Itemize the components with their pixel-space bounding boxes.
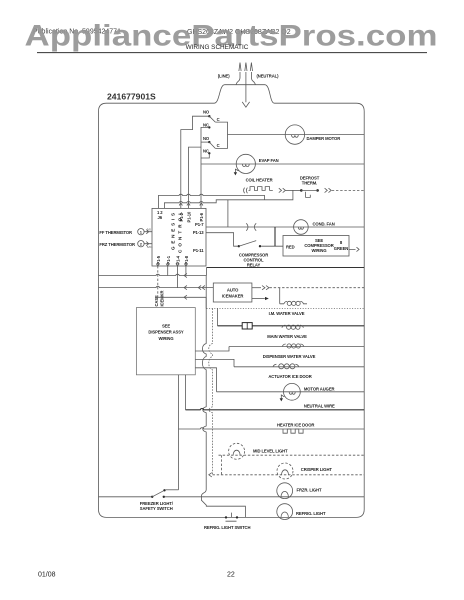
svg-text:ACTUATOR ICE DOOR: ACTUATOR ICE DOOR — [268, 374, 311, 379]
bus line 1 from left border — [99, 274, 207, 275]
svg-text:22: 22 — [227, 572, 235, 579]
thermistor 2 symbol — [138, 241, 144, 247]
neutral wire — [186, 409, 365, 410]
relay arm — [239, 241, 256, 247]
refrig switch plunger — [226, 513, 237, 522]
evap fan motor M2 — [236, 154, 255, 173]
motor auger ground — [281, 395, 284, 398]
svg-text:P1-2: P1-2 — [179, 212, 184, 221]
freezer switch arm — [152, 491, 163, 497]
svg-text:DISPENSER WATER VALVE: DISPENSER WATER VALVE — [263, 354, 316, 359]
svg-text:P1-13: P1-13 — [193, 230, 204, 235]
main water valve line — [218, 325, 365, 327]
svg-text:SAFETY SWITCH: SAFETY SWITCH — [140, 506, 173, 511]
wire: mid rail link to control P1-10 — [189, 147, 202, 208]
dotted bus below icemaker — [207, 307, 365, 309]
wire: switch A NO to left rail down to control P1-2 — [181, 116, 208, 208]
main water valve feed drop — [217, 308, 219, 325]
im water valve coil — [280, 288, 284, 304]
defrost thermostat — [300, 189, 303, 192]
thermistor 1 symbol — [138, 229, 144, 235]
svg-text:MOTOR AUGER: MOTOR AUGER — [304, 387, 335, 392]
motor auger line — [217, 391, 365, 393]
continuation chevron on bus 2 — [184, 286, 187, 290]
bus line 2 from left border to icemaker — [99, 286, 214, 287]
inline connector component on main valve line — [242, 322, 252, 329]
vertical rail V2 to crisper light — [209, 308, 213, 474]
svg-text:RED: RED — [286, 244, 295, 249]
outer cabinet border with cord hump — [99, 85, 365, 518]
svg-text:NO: NO — [203, 136, 210, 141]
switch B arm — [209, 142, 215, 148]
wire: switch B NC jog to mid rail — [201, 155, 209, 159]
svg-text:P1-5: P1-5 — [156, 255, 161, 264]
compressor control relay contacts — [238, 245, 240, 247]
neutral wire feed — [185, 375, 187, 410]
wire: switch B NO to mid rail — [201, 141, 208, 143]
dispenser water valve coil — [282, 344, 304, 348]
svg-text:DISPENSER ASSY: DISPENSER ASSY — [148, 330, 184, 335]
dispenser valve jog from dispenser box — [195, 347, 229, 352]
dispenser water valve line — [229, 346, 364, 348]
svg-text:FRZ THERMISTOR: FRZ THERMISTOR — [99, 242, 135, 247]
actuator ice door line — [234, 366, 364, 368]
svg-text:P1-7: P1-7 — [195, 222, 204, 227]
svg-text:NC: NC — [203, 149, 209, 154]
refrig light switch — [225, 516, 227, 518]
heater ice door element — [283, 429, 303, 433]
damper switch A: labels NO C NC — [203, 110, 220, 129]
svg-text:01/08: 01/08 — [38, 572, 56, 579]
control pin stubs to buses — [168, 266, 186, 288]
svg-text:J6: J6 — [158, 215, 163, 220]
svg-text:WIRING: WIRING — [312, 248, 327, 253]
svg-text:241677901S: 241677901S — [107, 92, 156, 102]
svg-text:P1-8: P1-8 — [184, 255, 189, 264]
coil heater element — [249, 187, 273, 191]
svg-text:NC: NC — [203, 123, 209, 128]
motor auger M4 — [284, 383, 301, 400]
svg-text:C: C — [217, 117, 220, 122]
icemaker output dashed to border — [252, 287, 261, 289]
svg-text:GENESIS: GENESIS — [171, 213, 176, 250]
svg-text:2: 2 — [140, 241, 143, 246]
wire to defrost thermostat — [286, 189, 301, 191]
svg-text:P1-1: P1-1 — [166, 255, 171, 264]
freezer light line — [99, 496, 365, 498]
see dispenser assy wiring box — [136, 308, 195, 375]
svg-text:SEE: SEE — [162, 323, 170, 328]
connector chevrons at control box top pins — [179, 203, 203, 206]
svg-text:NO: NO — [203, 110, 210, 115]
8 green stub connector — [349, 247, 359, 251]
freezer light safety switch — [151, 496, 153, 498]
header underline — [37, 52, 427, 54]
connector chevrons at icemaker input — [198, 286, 205, 290]
crisper light dashed line with chevron — [209, 473, 212, 477]
svg-text:P1-6: P1-6 — [199, 212, 204, 221]
svg-text:COIL HEATER: COIL HEATER — [246, 178, 273, 183]
svg-text:NEUTRAL WIRE: NEUTRAL WIRE — [304, 403, 335, 408]
vertical tie heater return to cond fan wire — [227, 200, 229, 227]
power cord prong ground (center) — [245, 72, 247, 102]
see compressor wiring box — [283, 236, 349, 257]
svg-text:P1-11: P1-11 — [193, 248, 204, 253]
svg-text:ICEMAKER: ICEMAKER — [222, 294, 244, 299]
svg-text:5/01: 5/01 — [147, 245, 153, 249]
svg-text:THERM.: THERM. — [302, 180, 317, 185]
wire: switch A C junction to vertical rail — [215, 122, 227, 148]
svg-text:CRISPER LIGHT: CRISPER LIGHT — [301, 467, 333, 472]
svg-text:COND. FAN: COND. FAN — [313, 221, 335, 226]
pin chevrons at control box bottom — [156, 263, 187, 266]
wire: relay to compressor box — [261, 245, 283, 247]
dashed tie between light lines — [221, 455, 223, 475]
svg-text:MAIN WATER VALVE: MAIN WATER VALVE — [267, 334, 307, 339]
connector chevrons defrost right — [325, 188, 332, 192]
heater ice door line — [179, 428, 365, 429]
svg-text:REFRIG. LIGHT: REFRIG. LIGHT — [296, 511, 326, 516]
svg-text:P1-10: P1-10 — [186, 211, 191, 222]
continuation chevron on bus 1 — [184, 273, 187, 277]
main water valve coil — [282, 325, 304, 329]
wire: damper motor feed from rail — [228, 134, 365, 136]
switch A arm — [209, 116, 215, 122]
wire: J6 pin2 bus to heater return — [164, 190, 293, 208]
case icemkr dashed drop — [157, 266, 159, 297]
inline connector pair on cond fan wire — [246, 223, 256, 230]
damper switch B: labels NO C NC — [203, 136, 220, 155]
P1-11 bus to right border — [207, 267, 365, 269]
svg-text:5/0: 5/0 — [147, 228, 152, 232]
svg-text:HEATER ICE DOOR: HEATER ICE DOOR — [277, 423, 314, 428]
wire: P1-7 to cond fan — [206, 226, 364, 228]
wire: freezer switch upper contact to rail — [166, 489, 179, 491]
power cord prong LINE — [236, 72, 240, 85]
wire: J6 pin1 bus to heater — [158, 194, 264, 208]
svg-text:WIRING: WIRING — [159, 336, 174, 341]
connector chevrons heater right — [279, 188, 286, 192]
svg-text:(NEUTRAL): (NEUTRAL) — [257, 74, 280, 79]
vertical rail V1 from bus down to light loop — [201, 276, 245, 518]
icemaker output arrow — [252, 298, 265, 300]
ground arrow into cabinet — [242, 102, 249, 107]
dashed wire defrost to right border — [332, 189, 364, 191]
wire: evap fan feed — [201, 163, 364, 165]
genesis control board U1 — [152, 208, 206, 266]
svg-text:REFRIG. LIGHT SWITCH: REFRIG. LIGHT SWITCH — [204, 525, 250, 530]
wire: P1-13 to relay — [206, 233, 238, 247]
svg-text:WIRING SCHEMATIC: WIRING SCHEMATIC — [186, 44, 249, 51]
svg-text:FRZR. LIGHT: FRZR. LIGHT — [297, 488, 322, 493]
svg-text:(LINE): (LINE) — [218, 74, 230, 79]
damper motor M1 — [285, 125, 304, 144]
svg-text:AUTO: AUTO — [227, 288, 239, 293]
svg-text:EVAP FAN: EVAP FAN — [259, 158, 279, 163]
svg-text:8: 8 — [340, 240, 343, 245]
svg-text:P1-4: P1-4 — [176, 255, 181, 264]
refrig light lamp — [277, 504, 293, 520]
im water valve solenoid windings — [287, 301, 291, 305]
mid level light lamp — [229, 443, 245, 459]
svg-text:C: C — [217, 143, 220, 148]
svg-text:DAMPER MOTOR: DAMPER MOTOR — [307, 136, 341, 141]
connector at heater left — [244, 188, 248, 194]
icemaker feed wire — [158, 297, 206, 308]
svg-text:FF THERMISTOR: FF THERMISTOR — [99, 230, 132, 235]
svg-text:1: 1 — [140, 229, 143, 234]
actuator jog from dispenser box — [195, 359, 234, 366]
heater ice door feed — [178, 375, 180, 490]
vertical tie cond fan wire to relay wire — [274, 227, 276, 246]
power cord prong NEUTRAL — [251, 72, 255, 85]
cond fan motor M3 — [294, 220, 309, 235]
crisper light lamp — [277, 463, 293, 479]
motor auger feed from dispenser box — [195, 368, 216, 392]
svg-text:RELAY: RELAY — [247, 262, 261, 267]
evap fan ground — [235, 169, 238, 172]
svg-text:ICEMKR: ICEMKR — [159, 291, 164, 307]
freezer light lamp — [277, 483, 293, 499]
mid level light dashed line — [219, 454, 365, 456]
wire: switch A NC to mid rail — [201, 127, 208, 208]
svg-text:I.M. WATER VALVE: I.M. WATER VALVE — [269, 311, 305, 316]
svg-text:MID LEVEL LIGHT: MID LEVEL LIGHT — [253, 449, 288, 454]
svg-text:GREEN: GREEN — [334, 246, 348, 251]
actuator ice door coil — [273, 364, 299, 369]
auto icemaker box — [213, 283, 252, 302]
